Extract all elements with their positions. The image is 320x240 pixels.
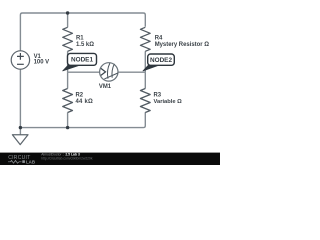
- svg-text:LAB: LAB: [26, 159, 35, 164]
- svg-text:Variable Ω: Variable Ω: [154, 99, 183, 105]
- node NODE2 flag: [143, 54, 174, 71]
- voltage source V1: [11, 51, 29, 69]
- junction dot bottom rail / ground: [19, 126, 22, 129]
- resistor R1: [63, 27, 73, 51]
- wire R1 top lead: [67, 13, 69, 27]
- wire left rail bottom: [19, 69, 21, 127]
- svg-text:NODE1: NODE1: [71, 56, 93, 63]
- svg-text:R4: R4: [155, 35, 163, 41]
- wire R3 top lead: [144, 72, 146, 88]
- node NODE1 flag: [63, 53, 97, 71]
- wire R2 bottom lead: [67, 113, 69, 128]
- svg-text:NODE2: NODE2: [150, 57, 172, 64]
- watermark bar: [0, 153, 220, 165]
- svg-text:100 V: 100 V: [34, 59, 50, 65]
- wire R4 bottom lead to NODE2: [144, 51, 146, 72]
- resistor R4: [140, 27, 150, 51]
- wire R1 bottom lead to NODE1: [67, 51, 69, 72]
- svg-text:R1: R1: [76, 35, 84, 41]
- voltmeter VM1: [100, 63, 118, 81]
- resistor R2: [63, 89, 73, 113]
- junction dot top rail / R1: [66, 11, 69, 14]
- svg-text:Mystery Resistor Ω: Mystery Resistor Ω: [155, 42, 210, 48]
- wire R2 top lead: [67, 72, 69, 88]
- svg-text:44 kΩ: 44 kΩ: [76, 99, 94, 105]
- ground: [12, 135, 28, 145]
- wire NODE1 to VM1 left terminal: [68, 71, 100, 73]
- svg-text:1.5 kΩ: 1.5 kΩ: [76, 42, 94, 48]
- svg-text:VM1: VM1: [99, 84, 112, 90]
- junction dot bottom rail / R2: [66, 126, 69, 129]
- svg-text:R3: R3: [154, 93, 162, 99]
- resistor R3: [140, 89, 150, 113]
- wire bottom rail: [20, 112, 145, 127]
- watermark CircuitLab logo: [8, 155, 35, 164]
- wire VM1 right terminal to NODE2: [118, 71, 145, 73]
- wire ground stub: [19, 128, 21, 135]
- svg-text:http://circuitlab.com/c6kt0m2w: http://circuitlab.com/c6kt0m2w229k: [41, 156, 93, 160]
- svg-text:R2: R2: [76, 93, 84, 99]
- wire top rail: [20, 13, 145, 51]
